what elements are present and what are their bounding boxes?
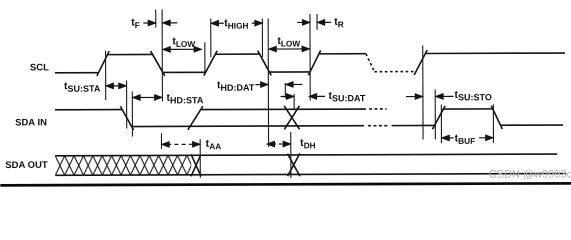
wire SDA OUT transition cross 2 rising line bbox=[288, 154, 300, 177]
wire SDA IN low segment bbox=[392, 124, 435, 126]
arrow tBUF pointing left bbox=[442, 135, 454, 140]
wire SDA OUT bottom rail bbox=[55, 174, 566, 176]
svg-text:tHD:DAT: tHD:DAT bbox=[217, 79, 255, 93]
svg-text:tBUF: tBUF bbox=[455, 132, 476, 146]
wire SDA IN data-change cross falling line bbox=[284, 106, 299, 130]
extension line tHIGH left bbox=[210, 19, 212, 57]
SDA IN waveform bbox=[55, 105, 563, 131]
extension line at SCL falling edge 2 (tHD:DAT left, long) bbox=[267, 19, 269, 147]
extension line tF right / tLOW left / tHD:STA right bbox=[161, 9, 163, 101]
extension line tSU:DAT left bbox=[293, 94, 295, 110]
extension line tBUF right bbox=[492, 104, 494, 142]
extension line at SDA IN low corner (tHD:STA left) bbox=[131, 92, 133, 137]
wire SDA OUT transition cross 1 rising line bbox=[191, 154, 201, 176]
extension line tR right bbox=[316, 14, 318, 30]
extension line tDH right (SDA OUT change) bbox=[290, 132, 292, 178]
arrow tF pointing right bbox=[143, 20, 155, 25]
wire SDA IN high segment (bus free) bbox=[443, 108, 492, 110]
extension line at SCL rising edge 3 (tR left / tSU:DAT right) bbox=[309, 14, 311, 100]
wire SCL rising edge 2 bbox=[204, 51, 217, 76]
extension tick tAA left bbox=[160, 133, 162, 148]
svg-text:tR: tR bbox=[334, 16, 344, 30]
arrow tSU:STO pointing right bbox=[406, 94, 422, 99]
double arrow tSU:STA bbox=[106, 83, 126, 88]
wire SDA IN high rail bbox=[201, 108, 366, 111]
svg-text:CSDN @w9993c: CSDN @w9993c bbox=[489, 168, 571, 180]
svg-text:tLOW: tLOW bbox=[172, 35, 195, 49]
wire SDA IN rising edge bbox=[188, 106, 203, 130]
wire SCL rising edge 4 bbox=[414, 50, 427, 75]
wire SCL high segment 1 bbox=[107, 53, 152, 55]
extension line tAA right (SDA OUT valid) bbox=[199, 139, 201, 177]
wire SDA IN low rail bbox=[132, 125, 364, 128]
SCL waveform bbox=[55, 50, 565, 77]
svg-text:tHD:STA: tHD:STA bbox=[166, 92, 203, 106]
svg-text:tSU:STO: tSU:STO bbox=[454, 89, 491, 103]
wire SCL low segment 2 bbox=[163, 71, 205, 73]
wire SDA IN dotted low rail (time break) bbox=[368, 125, 387, 127]
SDA OUT undefined-data crosshatch bbox=[55, 155, 191, 175]
svg-text:tSU:DAT: tSU:DAT bbox=[328, 90, 365, 104]
bottom border rule bbox=[0, 182, 571, 187]
wire SDA IN data-change cross rising line bbox=[284, 106, 299, 130]
arrow tBUF pointing right bbox=[479, 135, 493, 140]
wire SCL low segment 3 bbox=[269, 71, 309, 73]
extension line tLOW right bbox=[204, 42, 206, 74]
wire SCL falling edge 2 bbox=[258, 51, 271, 76]
wire SCL rising edge 1 bbox=[97, 51, 109, 76]
wire SDA IN high segment 1 bbox=[55, 109, 122, 111]
wire SDA IN falling edge (next START) bbox=[491, 106, 502, 129]
svg-text:SCL: SCL bbox=[30, 62, 49, 73]
wire SDA OUT transition cross 1 falling line bbox=[191, 154, 201, 176]
wire SCL dotted falling edge bbox=[366, 54, 375, 72]
wire SDA IN falling edge (START) bbox=[120, 106, 133, 130]
arrow tSU:DAT pointing left bbox=[310, 94, 326, 99]
svg-text:tDH: tDH bbox=[300, 137, 316, 151]
extension line tBUF left bbox=[440, 104, 442, 142]
wire SCL low segment 1 bbox=[55, 72, 98, 74]
extension line at SCL rising edge 4 (tSU:STO left) bbox=[422, 46, 424, 140]
wire SCL high segment 2 bbox=[215, 53, 259, 55]
wire SCL rising edge 3 bbox=[308, 50, 320, 75]
svg-text:tLOW: tLOW bbox=[277, 35, 300, 49]
dashed double arrow tDH bbox=[267, 141, 290, 146]
arrow tSU:DAT pointing right bbox=[281, 94, 294, 99]
extension line at SDA IN START fall (tSU:STA right) bbox=[126, 81, 128, 129]
svg-text:SDA OUT: SDA OUT bbox=[5, 160, 48, 171]
arrow tHD:DAT pointing right bbox=[255, 82, 267, 87]
wire SDA IN low segment end bbox=[501, 124, 564, 126]
wire SDA OUT top rail bbox=[55, 154, 557, 156]
arrow tF pointing left bbox=[163, 20, 177, 25]
extension line tSU:STO right bbox=[434, 89, 436, 139]
extension line tHIGH right bbox=[261, 19, 263, 57]
wire SDA OUT transition cross 2 falling line bbox=[288, 154, 300, 177]
svg-text:tSU:STA: tSU:STA bbox=[64, 80, 101, 94]
arrow tR pointing left bbox=[318, 20, 331, 25]
arrow tSU:STO pointing left bbox=[436, 94, 454, 99]
wire SCL dotted low segment (time break) bbox=[374, 71, 415, 73]
svg-text:tF: tF bbox=[131, 17, 140, 31]
dashed double arrow tAA bbox=[162, 142, 200, 147]
svg-text:tHIGH: tHIGH bbox=[224, 17, 248, 31]
double arrow tHD:STA bbox=[133, 95, 162, 100]
arrow tHIGH pointing left bbox=[211, 21, 223, 26]
extension line tF left bbox=[155, 9, 157, 27]
arrow tR pointing right bbox=[297, 20, 309, 25]
wire SCL falling edge 1 bbox=[151, 51, 165, 76]
arrow tHD:DAT pointing left bbox=[286, 82, 303, 87]
arrow tHIGH pointing right bbox=[252, 20, 262, 25]
extension line at SCL rising edge 1 (tSU:STA left) bbox=[105, 51, 107, 100]
svg-text:SDA IN: SDA IN bbox=[15, 117, 47, 128]
wire SCL high segment 4 bbox=[425, 52, 564, 54]
wire SDA IN dotted high rail (time break) bbox=[369, 108, 386, 110]
wire SDA IN rising edge (STOP) bbox=[432, 106, 445, 129]
svg-text:tAA: tAA bbox=[206, 138, 222, 152]
double arrow tLOW 2 bbox=[269, 46, 309, 51]
extension line tHD:DAT right bbox=[284, 83, 286, 98]
double arrow tLOW 1 bbox=[163, 47, 201, 52]
wire SCL high segment 3 bbox=[319, 53, 366, 55]
SDA OUT waveform bbox=[55, 153, 566, 177]
